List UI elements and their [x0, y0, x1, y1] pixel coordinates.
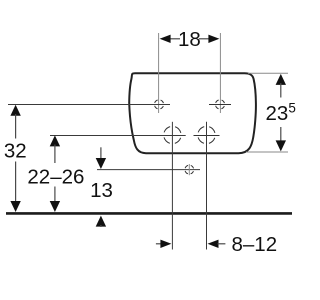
svg-text:13: 13: [90, 179, 113, 202]
svg-text:8–12: 8–12: [232, 233, 278, 256]
middle-left hole dashed circle: [160, 123, 185, 148]
dimension 8-12, right arrow pointing left: [208, 240, 226, 248]
extension line, dim 22-26 (through middle-left hole): [50, 135, 186, 137]
middle-right hole dashed circle: [194, 123, 219, 148]
dimension 23.5, vertical line lower part with down arrow: [276, 127, 286, 151]
dimension 8-12, left arrow pointing right: [156, 240, 172, 248]
middle-right hole vertical line (extension for 8-12): [206, 122, 208, 250]
dimension 22-26, vertical line upper part with up arrow: [50, 135, 60, 163]
dimension 18, right arrow: [199, 35, 219, 43]
upper-right hole crosshair horizontal: [209, 104, 231, 106]
svg-text:18: 18: [178, 28, 201, 51]
dimension 32, vertical line lower part with down arrow: [10, 162, 20, 213]
upper-right fixing hole dashed circle: [213, 98, 226, 111]
middle-right hole crosshair horizontal: [194, 135, 220, 137]
svg-text:22–26: 22–26: [27, 165, 84, 188]
extension line, dim 23.5 bottom: [246, 151, 288, 153]
dimension 23.5, vertical line upper part with up arrow: [276, 74, 286, 98]
dimension 22-26, vertical line lower part with down arrow: [50, 187, 60, 213]
dimension 13, lower up-arrow (below floor): [96, 216, 106, 227]
extension line, dim 18, left vertical: [158, 33, 160, 113]
small bottom hole vertical tick: [188, 164, 190, 175]
floor line: [6, 212, 292, 215]
extension line, dim 23.5 top: [248, 72, 288, 74]
dimension 32, vertical line upper part with up arrow: [10, 105, 20, 139]
dimension 18, left arrow: [160, 35, 180, 43]
extension line, dim 18, right vertical: [219, 33, 221, 113]
extension line, dim 13 (through small bottom hole): [97, 169, 200, 171]
svg-text:32: 32: [4, 140, 27, 163]
upper-left fixing hole dashed circle: [152, 98, 165, 111]
bidet outline: [129, 73, 256, 153]
small bottom hole dashed circle: [183, 163, 195, 175]
dimension 13, upper down-arrow (outside): [96, 147, 106, 169]
middle-left hole vertical line (extension for 8-12): [171, 122, 173, 250]
extension line, dim 32 (through upper-left hole): [8, 104, 170, 106]
